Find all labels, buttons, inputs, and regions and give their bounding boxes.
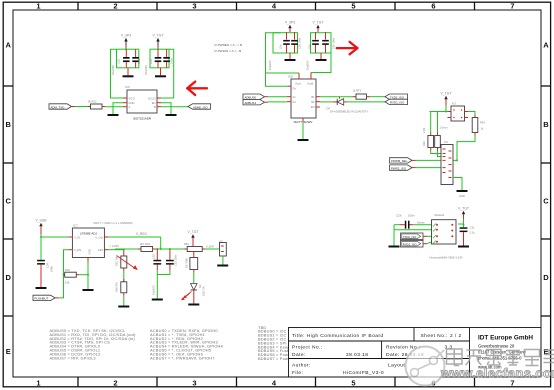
svg-text:FB1: FB1 [184, 242, 189, 246]
potentiometer R25 [115, 250, 138, 271]
svg-text:C29 100n: C29 100n [298, 37, 302, 49]
connector Module1 [432, 213, 457, 244]
svg-text:VccA: VccA [295, 81, 301, 85]
wire cap join [157, 270, 170, 299]
svg-text:28.03.18: 28.03.18 [346, 352, 368, 358]
svg-text:Sense: Sense [417, 221, 425, 225]
svg-text:1k RT3: 1k RT3 [353, 89, 362, 93]
svg-text:2k7 R24: 2k7 R24 [140, 242, 151, 246]
wire [320, 96, 353, 98]
supply V_3P3 [285, 21, 295, 33]
svg-text:A: A [129, 105, 131, 109]
svg-text:V_BAT: V_BAT [206, 244, 215, 248]
svg-text:ACBUS7 = *, PWRSAV#, GPIOH7: ACBUS7 = *, PWRSAV#, GPIOH7 [150, 355, 215, 360]
wire gnd drop [87, 262, 89, 290]
wire [438, 151, 442, 157]
svg-text:100n: 100n [137, 58, 141, 64]
svg-text:10k: 10k [65, 281, 70, 285]
svg-text:EN: EN [152, 101, 156, 105]
svg-text:C32 100n: C32 100n [174, 254, 178, 266]
svg-text:HoneywellHIH-3605-1-143: HoneywellHIH-3605-1-143 [430, 256, 463, 260]
wire [427, 235, 432, 237]
svg-text:ADBUS7 = RI#, GPIOL3: ADBUS7 = RI#, GPIOL3 [50, 355, 96, 360]
supply V_USB [35, 219, 47, 235]
svg-text:D2: D2 [198, 284, 202, 288]
svg-text:V_TGT: V_TGT [188, 230, 199, 234]
supply V_TGT [458, 207, 469, 220]
svg-text:Title: High Communication IF B: Title: High Communication IF Board [292, 333, 384, 339]
ground [118, 306, 129, 308]
wire [416, 159, 442, 161]
node RXD2_ISO label [385, 99, 408, 104]
capacitor C26 [396, 214, 415, 229]
capacitor C28 [308, 32, 319, 53]
svg-text:D4 ASSEMBLED IN QUANTITY: D4 ASSEMBLED IN QUANTITY [330, 110, 368, 114]
svg-text:D PW22N = A <-- B: D PW22N = A <-- B [215, 49, 242, 53]
watermark logo circle [406, 347, 445, 386]
ground [217, 265, 228, 267]
svg-text:C: C [543, 197, 549, 206]
svg-text:10u/16V: 10u/16V [306, 60, 310, 70]
wire [105, 106, 123, 108]
svg-text:IC6: IC6 [125, 85, 130, 89]
svg-text:VOUT = VADJ x (1 + R25/R26): VOUT = VADJ x (1 + R25/R26) [93, 221, 133, 225]
note ADBUS list [50, 328, 137, 360]
pin stubs IC6 [123, 98, 161, 107]
svg-text:File:: File: [292, 370, 303, 376]
svg-text:V_REG: V_REG [136, 232, 147, 236]
ground [389, 246, 400, 248]
svg-text:2.2u: 2.2u [470, 231, 476, 235]
svg-text:C: C [5, 197, 11, 206]
supply V_TGT [313, 21, 324, 33]
svg-text:www.elecfans.com: www.elecfans.com [440, 366, 554, 381]
isolator IC8 [288, 75, 316, 124]
svg-text:C24: C24 [46, 263, 50, 268]
svg-text:E: E [6, 347, 11, 356]
svg-text:V_TGT: V_TGT [458, 207, 469, 211]
note text [215, 43, 243, 53]
svg-text:D PWREN = A --> B: D PWREN = A --> B [215, 43, 243, 47]
svg-text:GND: GND [129, 101, 135, 105]
svg-text:= 1.25V: = 1.25V [110, 244, 120, 248]
ground [298, 139, 309, 141]
wire gnd [302, 122, 304, 139]
resistor R32 [422, 127, 434, 150]
wire [268, 101, 287, 103]
svg-text:100n: 100n [50, 266, 54, 272]
svg-text:10u/16V: 10u/16V [144, 65, 148, 75]
wire en [59, 250, 69, 298]
svg-text:C31: C31 [470, 226, 475, 230]
svg-text:10u/16V: 10u/16V [111, 65, 115, 75]
node ADM_TXD label [49, 104, 75, 110]
svg-text:Author:: Author: [292, 363, 311, 369]
ground [457, 190, 468, 198]
connector X4 [441, 140, 453, 184]
svg-text:LED GN: LED GN [202, 286, 206, 296]
wire output B [161, 106, 188, 108]
svg-text:3.3: 3.3 [445, 345, 453, 351]
svg-text:ADM_TXD: ADM_TXD [51, 105, 65, 109]
svg-text:R26 47k: R26 47k [115, 282, 119, 292]
wire [394, 224, 400, 226]
svg-text:ADM0_ISO: ADM0_ISO [193, 105, 208, 109]
svg-text:HiComIFB_V3-0: HiComIFB_V3-0 [343, 370, 384, 376]
svg-text:V_EN: V_EN [74, 248, 81, 252]
svg-text:22u: 22u [308, 44, 312, 49]
capacitor C29 [291, 32, 302, 53]
capacitor C31 [460, 226, 476, 246]
ground [36, 287, 47, 289]
capacitor C22 [149, 49, 161, 68]
svg-text:22u: 22u [279, 44, 283, 49]
svg-text:5k R13: 5k R13 [88, 100, 97, 104]
svg-text:1: 1 [36, 379, 40, 388]
svg-text:V_Out: V_Out [95, 236, 103, 240]
svg-text:V_TGT: V_TGT [313, 21, 324, 25]
wire [79, 274, 88, 276]
ground [458, 246, 469, 248]
wire supply rail right [311, 33, 332, 73]
node ADBUS0 label [243, 94, 268, 100]
wire [123, 296, 125, 306]
svg-text:TXD2_ISO: TXD2_ISO [403, 235, 417, 239]
ground [108, 114, 119, 116]
node RXD2_ISO boxed label [401, 240, 428, 247]
svg-text:B1: B1 [311, 95, 315, 99]
wire [430, 106, 448, 133]
testpoint X2 [219, 240, 226, 265]
ground [306, 53, 327, 70]
svg-text:10u/16V: 10u/16V [151, 285, 155, 295]
node TXD2_ISO label [385, 94, 408, 100]
svg-text:C26: C26 [396, 214, 402, 218]
wire en pin [161, 103, 171, 114]
resistor R23 [63, 268, 80, 285]
svg-text:RXD2_ISO: RXD2_ISO [403, 243, 418, 247]
svg-text:PUSHBUT: PUSHBUT [35, 297, 49, 301]
svg-text:R23: R23 [65, 268, 70, 272]
svg-text:A2: A2 [293, 100, 297, 104]
wire [347, 101, 386, 103]
wire [193, 272, 195, 284]
wire supply rail left [266, 33, 300, 86]
capacitor C20 [117, 49, 130, 68]
svg-text:2: 2 [113, 379, 117, 388]
ground [83, 289, 94, 291]
svg-text:R25 10k: R25 10k [115, 256, 119, 266]
node PUSHBUT label [33, 295, 59, 301]
node PWR2_ISO label [390, 165, 416, 171]
wire supply rail right [150, 48, 174, 98]
svg-text:Project No.:: Project No.: [292, 345, 323, 351]
svg-text:A: A [543, 41, 549, 50]
node ADM0_ISO label [188, 104, 211, 110]
svg-text:GND: GND [459, 194, 465, 198]
svg-text:2.2K: 2.2K [422, 127, 426, 133]
svg-text:C30 100n: C30 100n [332, 37, 336, 49]
svg-text:5: 5 [351, 2, 355, 11]
capacitor C21 [132, 49, 141, 68]
ground [188, 304, 199, 306]
wire vout [108, 237, 160, 249]
ground [268, 53, 296, 70]
capacitor C30 [322, 32, 336, 53]
node ADBUS1 label [243, 100, 268, 106]
svg-text:Sheet No.:: Sheet No.: [421, 333, 448, 339]
svg-text:5: 5 [351, 379, 355, 388]
svg-text:D: D [5, 273, 11, 282]
pin stubs IC7 [68, 237, 108, 262]
svg-text:ADJ: ADJ [98, 248, 104, 252]
node PWRM_SEL label [390, 158, 416, 164]
resistor R33 [435, 126, 448, 151]
wire supply rail left [111, 48, 139, 98]
wire [453, 136, 475, 162]
wire bus [394, 229, 432, 231]
ground [111, 65, 134, 78]
wire [40, 234, 68, 260]
svg-text:C25: C25 [151, 254, 155, 259]
svg-text:V_3P3: V_3P3 [121, 34, 131, 38]
svg-text:R27 680: R27 680 [185, 258, 189, 268]
supply V_TGT [188, 230, 199, 247]
svg-text:VCCO: VCCO [148, 96, 156, 100]
wire [416, 167, 442, 169]
svg-text:B: B [543, 120, 549, 129]
watermark CJK glyphs [447, 349, 554, 366]
capacitor C27 [279, 32, 290, 53]
ferrite FB1 [184, 242, 205, 252]
supply V_TGT [153, 34, 164, 50]
relay K3 [448, 102, 469, 122]
isolator IC6 [125, 85, 157, 121]
svg-text:C20: C20 [117, 59, 121, 64]
pin stubs IC8 [287, 73, 320, 123]
svg-text:Modul1: Modul1 [435, 213, 445, 217]
svg-text:V_TGT: V_TGT [441, 92, 452, 96]
wire [75, 106, 88, 108]
annotation arrow right [337, 42, 358, 54]
svg-text:LP2985-ADJ: LP2985-ADJ [80, 232, 98, 236]
wire gnd pin [113, 103, 123, 114]
svg-text:R32: R32 [422, 141, 426, 146]
capacitor C23 [163, 49, 173, 68]
wire gnd [453, 178, 462, 191]
supply V_3P3 [121, 34, 131, 50]
svg-text:100n: 100n [170, 58, 174, 64]
svg-text:ISO7221ADR: ISO7221ADR [133, 117, 152, 121]
svg-text:10u/16V: 10u/16V [268, 60, 272, 70]
resistor R34 [472, 115, 485, 136]
svg-text:V_3P3: V_3P3 [285, 21, 295, 25]
capacitor C24 [37, 260, 53, 287]
svg-text:EN: EN [311, 105, 315, 109]
svg-text:1: 1 [36, 2, 40, 11]
wire B2 out [320, 101, 333, 103]
svg-text:X4: X4 [444, 140, 448, 144]
wire sense [413, 224, 432, 226]
svg-text:IC7: IC7 [73, 224, 78, 228]
svg-text:Gewerbestrasse 28: Gewerbestrasse 28 [478, 344, 515, 349]
svg-text:B: B [5, 120, 11, 129]
wire adj rail [108, 248, 220, 250]
svg-text:V_USB: V_USB [35, 219, 47, 223]
wire [431, 151, 441, 154]
supply V_TGT [441, 92, 452, 106]
svg-text:RXD2_ISO: RXD2_ISO [390, 101, 405, 105]
annotation arrow left [187, 82, 207, 95]
svg-text:IC8: IC8 [288, 75, 293, 79]
svg-text:3: 3 [192, 379, 196, 388]
svg-text:2 / 2: 2 / 2 [450, 333, 462, 339]
svg-text:GND: GND [89, 249, 92, 255]
svg-text:V_TGT: V_TGT [153, 34, 164, 38]
regulator IC7 [72, 224, 104, 258]
capacitor C25 [151, 249, 161, 270]
svg-text:Date:: Date: [292, 352, 306, 358]
svg-text:ADBUS0: ADBUS0 [245, 96, 257, 100]
svg-text:3: 3 [192, 2, 196, 11]
capacitor C32 [166, 249, 178, 270]
LED D2 [181, 284, 206, 304]
svg-text:VCCI: VCCI [129, 96, 136, 100]
wire [458, 219, 465, 227]
resistor R24 [138, 242, 156, 252]
wire [468, 112, 475, 115]
svg-text:IDT Europe GmbH: IDT Europe GmbH [478, 335, 533, 342]
svg-text:Dir: Dir [293, 87, 296, 91]
svg-text:A1: A1 [293, 95, 297, 99]
resistor R13 [88, 100, 106, 109]
svg-text:D: D [543, 273, 549, 282]
wire [427, 242, 432, 244]
ground [144, 65, 166, 78]
ground [166, 114, 177, 116]
svg-text:A: A [5, 41, 11, 50]
resistor R27 [185, 252, 198, 273]
svg-text:VccB: VccB [307, 81, 313, 85]
svg-text:100n: 100n [408, 214, 415, 218]
svg-text:PWR2_ISO: PWR2_ISO [391, 166, 407, 170]
svg-text:K3: K3 [452, 102, 456, 106]
diode D4 [327, 97, 348, 111]
resistor RT3 [353, 89, 371, 100]
svg-text:2: 2 [113, 2, 117, 11]
wire [268, 96, 287, 98]
node TXD2_ISO boxed label [401, 233, 428, 240]
svg-text:R34: R34 [480, 121, 485, 125]
svg-text:Layout: Layout [388, 363, 405, 369]
svg-text:1.6mm: 1.6mm [440, 126, 448, 130]
svg-text:ADBUS1: ADBUS1 [245, 101, 257, 105]
svg-text:7: 7 [510, 2, 514, 11]
svg-text:C22: C22 [149, 59, 153, 64]
svg-text:PWRM_SEL: PWRM_SEL [391, 159, 408, 163]
resistor R26 [115, 271, 127, 296]
svg-text:V_IN: V_IN [74, 236, 80, 240]
note ACBUS list [150, 328, 224, 360]
svg-text:B2: B2 [311, 100, 315, 104]
svg-text:6: 6 [431, 2, 435, 11]
svg-text:B: B [154, 105, 156, 109]
ground [152, 299, 163, 301]
wire gnd drop [393, 225, 395, 246]
